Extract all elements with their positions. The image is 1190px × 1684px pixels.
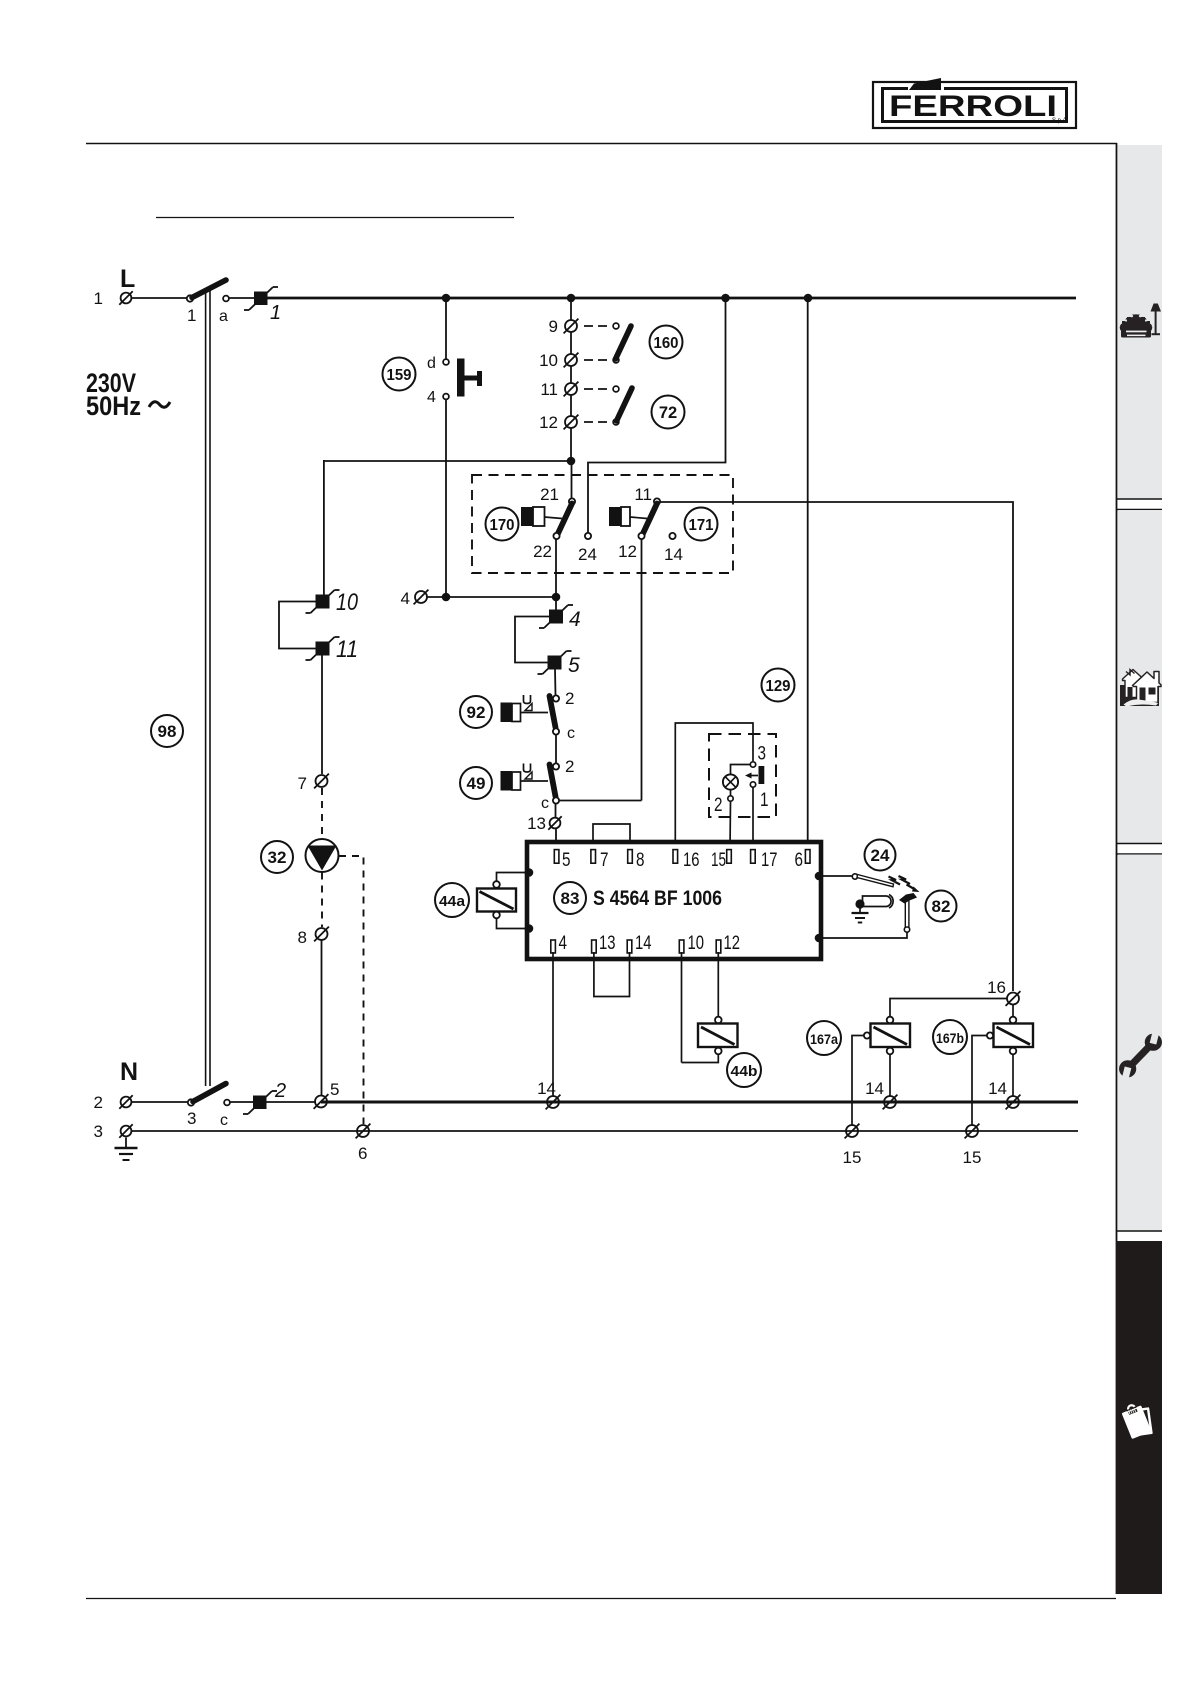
board pin 16: [673, 849, 700, 871]
transformer 44a: [477, 881, 516, 918]
board pin 10: [679, 932, 704, 954]
bottom rule: [86, 1598, 1116, 1600]
icon clipboard: [1120, 1402, 1153, 1439]
svg-text:167a: 167a: [810, 1031, 838, 1047]
svg-text:160: 160: [654, 335, 679, 352]
wire 9-10: [570, 332, 572, 354]
wire 5 down to 92: [554, 670, 557, 696]
thermostat 4: [539, 605, 581, 631]
wire 167a left to ground: [852, 1036, 864, 1126]
switch coupling line 98: [206, 289, 210, 1086]
node 14 (171): [664, 533, 683, 564]
fuse 2: [243, 1080, 286, 1114]
svg-text:12: 12: [724, 932, 741, 954]
svg-text:15: 15: [711, 849, 726, 871]
terminal 7: [298, 774, 329, 793]
wire node 4 row: [427, 596, 556, 598]
wire pin 12 down: [717, 952, 719, 1017]
svg-text:129: 129: [766, 678, 791, 695]
board 83: [527, 842, 821, 959]
terminal 2 (N): [94, 1093, 133, 1112]
svg-text:21: 21: [540, 485, 559, 504]
terminal 9: [549, 317, 579, 336]
ref circle 44b: [727, 1053, 761, 1087]
svg-text:4: 4: [427, 389, 436, 406]
wire bus to board pin 6: [807, 298, 809, 850]
svg-text:9: 9: [549, 317, 558, 336]
wire board to 44a top: [497, 873, 530, 882]
svg-text:11: 11: [540, 380, 558, 399]
svg-text:4: 4: [559, 932, 568, 954]
terminal 4: [401, 589, 429, 608]
contact 170 21-22: [533, 485, 575, 561]
svg-text:S.p.A: S.p.A: [1052, 118, 1067, 124]
thermostat 10: [306, 589, 359, 616]
terminal 6: [356, 1124, 371, 1163]
svg-text:170: 170: [490, 517, 515, 534]
terminal 14 (pin4): [537, 1079, 560, 1109]
board pin 15: [711, 849, 731, 871]
svg-text:8: 8: [636, 849, 645, 871]
board pin 17: [751, 849, 778, 871]
svg-text:13: 13: [527, 814, 546, 833]
junction L-159: [442, 294, 451, 303]
detection electrode 82: [855, 893, 917, 932]
wire 49c down to 13: [555, 804, 557, 818]
contact 49 2-c: [541, 757, 574, 812]
coil 170: [521, 507, 562, 526]
lamp 129: [723, 774, 738, 789]
svg-text:72: 72: [659, 404, 677, 422]
svg-text:8: 8: [298, 928, 307, 947]
wire 167b left to ground: [972, 1036, 987, 1126]
jumper pins 7-8: [593, 824, 630, 850]
wire 16 down to 167b: [1012, 1005, 1014, 1017]
terminal 1 (L): [94, 289, 133, 308]
svg-text:2: 2: [565, 689, 574, 708]
wire 11 down to terminal 7: [321, 656, 323, 775]
svg-text:92: 92: [467, 703, 486, 722]
svg-text:2: 2: [714, 795, 723, 816]
svg-text:11: 11: [336, 636, 358, 663]
ref circle 160: [650, 326, 683, 359]
contact 92 2-c: [550, 689, 576, 742]
wire 16 row to 167a: [890, 999, 1007, 1017]
switch blade 72: [617, 388, 633, 421]
wire lamp top to node 3: [731, 765, 751, 775]
junction L-912: [567, 294, 576, 303]
svg-text:3: 3: [94, 1122, 103, 1141]
fuse 1: [244, 287, 281, 324]
icon sofa with lamp: [1120, 304, 1161, 338]
wire L bus: [267, 297, 1076, 300]
junction board right bottom: [815, 934, 824, 943]
svg-text:a: a: [219, 308, 228, 325]
svg-text:7: 7: [600, 849, 609, 871]
bracket 4-5: [515, 617, 549, 663]
jumper pins 13-14: [594, 952, 630, 997]
ref circle 49: [460, 767, 492, 799]
svg-text:4: 4: [569, 608, 581, 631]
junction 22-4: [552, 593, 561, 602]
relay 167a: [864, 1017, 910, 1055]
node c: [220, 1100, 230, 1129]
ref circle 24: [865, 840, 896, 871]
coil 171: [609, 507, 647, 526]
button 159 contacts: [427, 355, 449, 406]
wire 11-12: [570, 395, 572, 416]
coil 92: [501, 695, 549, 722]
svg-text:5: 5: [568, 654, 580, 677]
wire 167a bottom to N: [889, 1055, 891, 1097]
icon wrench: [1112, 1027, 1168, 1084]
terminal 16: [987, 978, 1020, 1006]
ground symbol: [115, 1138, 138, 1161]
svg-text:14: 14: [865, 1079, 884, 1098]
svg-text:S 4564 BF 1006: S 4564 BF 1006: [593, 887, 722, 910]
N bus: [321, 1101, 1078, 1104]
board pin 12: [716, 932, 740, 954]
wire 92c to 49: [555, 735, 557, 763]
wire a to fuse 1: [229, 297, 254, 299]
wire 24 branch: [588, 298, 726, 533]
svg-text:98: 98: [158, 722, 177, 741]
wire 13 to board pin 5: [555, 829, 557, 850]
svg-text:10: 10: [539, 351, 558, 370]
spark flash: [889, 876, 916, 890]
wire 12 down: [641, 539, 643, 801]
dashed link 12: [584, 419, 619, 425]
bracket 10-11: [279, 602, 316, 649]
wire 4node down to thermostat 4: [555, 597, 557, 610]
svg-text:1: 1: [187, 306, 196, 325]
wire 167b bottom to N: [1012, 1055, 1014, 1097]
pump 32: [306, 839, 339, 872]
spark electrode 24: [823, 874, 894, 887]
wire row down to thermostat 10: [323, 460, 325, 595]
svg-text:10: 10: [688, 932, 705, 954]
ref circle 170: [486, 508, 519, 541]
svg-text:15: 15: [843, 1148, 862, 1167]
svg-text:6: 6: [358, 1144, 367, 1163]
svg-text:12: 12: [539, 413, 558, 432]
thermostat 11: [306, 636, 359, 663]
svg-text:FERROLI: FERROLI: [889, 90, 1057, 123]
relay 44b: [698, 1017, 738, 1055]
svg-text:3: 3: [187, 1109, 196, 1128]
svg-text:24: 24: [578, 545, 597, 564]
wire lamp3 to pin16: [675, 723, 753, 850]
wire fuse 2 to terminal 5: [266, 1101, 316, 1103]
ground 82: [852, 904, 869, 923]
svg-text:13: 13: [599, 932, 616, 954]
svg-text:N: N: [120, 1058, 138, 1086]
ref circle 92: [460, 696, 492, 728]
dashed box 129: [709, 734, 776, 817]
terminal 13: [527, 814, 562, 833]
svg-text:c: c: [541, 795, 549, 812]
wire bus to 159 d: [445, 298, 447, 359]
svg-text:6: 6: [795, 849, 804, 871]
wire 8 down to 5: [321, 941, 323, 1096]
switch 98 pole L: [187, 280, 226, 325]
wire pin 4 down to N: [552, 952, 554, 1096]
svg-text:10: 10: [336, 589, 359, 616]
svg-text:c: c: [567, 725, 575, 742]
svg-text:17: 17: [761, 849, 778, 871]
svg-text:2: 2: [94, 1093, 103, 1112]
svg-text:14: 14: [988, 1079, 1007, 1098]
wire node row y461: [323, 460, 571, 462]
thermostat 5: [538, 651, 581, 677]
wire board to electrode 82: [823, 933, 907, 939]
ref circle 98: [151, 715, 183, 747]
board pin 7: [591, 849, 609, 871]
wire 44b bottom to pin 10: [682, 1055, 719, 1063]
node a: [219, 296, 229, 325]
ref circle 32: [261, 841, 293, 873]
svg-text:4: 4: [401, 589, 410, 608]
ref circle 129: [762, 669, 795, 702]
svg-text:44a: 44a: [439, 893, 466, 910]
svg-text:159: 159: [387, 367, 412, 384]
terminal 5: [314, 1080, 340, 1109]
terminal 15 (167b): [963, 1124, 982, 1167]
dashed link 9: [584, 323, 619, 329]
svg-text:c: c: [220, 1112, 228, 1129]
terminal 10: [539, 351, 578, 370]
svg-text:1: 1: [270, 302, 281, 324]
title underline: [156, 217, 514, 219]
node 2 (129): [714, 790, 733, 816]
svg-text:1: 1: [94, 289, 103, 308]
svg-text:14: 14: [635, 932, 652, 954]
logo FERROLI: [873, 78, 1076, 128]
ref circle 83: [554, 882, 586, 914]
svg-text:167b: 167b: [936, 1030, 964, 1046]
wire 22 down: [555, 539, 557, 597]
svg-text:50Hz: 50Hz: [86, 391, 141, 421]
relay 167b: [987, 1017, 1033, 1055]
board pin 14: [627, 932, 651, 954]
wire L to switch: [132, 297, 187, 299]
ref circle 171: [685, 508, 718, 541]
switch 98 pole N: [187, 1084, 226, 1129]
sidebar: [1116, 143, 1162, 1594]
board pin 4: [551, 932, 567, 954]
wire node1 to pin 17: [752, 788, 754, 851]
svg-text:22: 22: [533, 542, 552, 561]
board pin 8: [628, 849, 645, 871]
dashed link 11: [584, 386, 619, 392]
svg-text:3: 3: [758, 744, 767, 765]
wire node2 to pin 15: [729, 801, 732, 850]
svg-text:16: 16: [987, 978, 1006, 997]
wire 44a bottom to board: [497, 919, 530, 929]
svg-text:11: 11: [634, 485, 652, 504]
terminal 12: [539, 413, 578, 432]
junction board left bottom: [525, 924, 534, 933]
ground bus: [132, 1130, 1078, 1132]
svg-text:12: 12: [618, 542, 637, 561]
wire bus down to terminal 9: [570, 298, 572, 320]
node 24: [578, 533, 597, 564]
junction board left top: [525, 868, 534, 877]
dashed link 10: [584, 357, 619, 363]
junction L-24line: [721, 294, 730, 303]
coil 49: [501, 764, 549, 791]
svg-text:5: 5: [330, 1080, 339, 1099]
junction 159-4: [442, 593, 451, 602]
ref circle 82: [926, 891, 957, 922]
wire c to fuse 2: [230, 1101, 253, 1103]
svg-text:1: 1: [760, 790, 769, 811]
svg-text:32: 32: [268, 848, 287, 867]
svg-text:16: 16: [683, 849, 700, 871]
svg-text:L: L: [120, 265, 135, 293]
label 230V 50Hz: [86, 368, 170, 421]
board pin 6: [795, 849, 811, 871]
node 3 (129): [750, 744, 766, 768]
svg-text:7: 7: [298, 774, 307, 793]
wire pin 10 down: [681, 952, 683, 1063]
junction 912-row: [567, 457, 576, 466]
dashed wire pump to terminal 8: [321, 873, 323, 928]
terminal 8: [298, 927, 329, 947]
svg-text:14: 14: [664, 545, 683, 564]
ref circle 167a: [807, 1021, 841, 1055]
board pin 13: [592, 932, 616, 954]
terminal 15 (167a): [843, 1124, 862, 1167]
terminal 11: [540, 380, 578, 399]
dashed box 170/171: [472, 475, 733, 573]
switch blade 160: [616, 326, 632, 359]
terminal 14 (167b): [988, 1079, 1020, 1109]
terminal 3 (ground): [94, 1122, 133, 1141]
svg-text:171: 171: [689, 517, 714, 534]
board pin 5: [554, 849, 570, 871]
svg-text:82: 82: [932, 897, 951, 916]
junction L-pin6: [804, 294, 813, 303]
junction board right top: [815, 872, 824, 881]
ref circle 167b: [933, 1020, 967, 1054]
svg-text:44b: 44b: [731, 1063, 758, 1080]
svg-text:d: d: [427, 355, 436, 372]
wire 49c right to 171-12: [559, 800, 642, 802]
wire 11 to 167b: [660, 502, 1013, 991]
svg-text:2: 2: [274, 1080, 286, 1102]
wire 12 down to node row: [570, 428, 572, 461]
svg-text:2: 2: [565, 757, 574, 776]
svg-text:49: 49: [467, 774, 486, 793]
ref circle 44a: [435, 883, 469, 917]
terminal 14 (167a): [865, 1079, 897, 1109]
svg-text:5: 5: [562, 849, 571, 871]
svg-text:83: 83: [561, 889, 580, 908]
ref circle 72: [652, 396, 685, 429]
node 1 (129): [750, 782, 768, 811]
icon houses: [1120, 670, 1161, 707]
wire 21 up: [571, 461, 573, 499]
svg-text:24: 24: [871, 846, 890, 865]
wire N to switch: [132, 1101, 188, 1103]
wire 10-11: [570, 366, 572, 383]
wire 159-4 down to node 4: [445, 400, 447, 598]
top rule: [86, 143, 1117, 145]
dashed wire 7 to pump: [321, 788, 323, 838]
contact 171 11-12: [618, 485, 660, 561]
button 159 actuator: [457, 359, 482, 397]
svg-text:15: 15: [963, 1148, 982, 1167]
dashed wire pump right down to 6: [339, 856, 364, 1124]
switch bar 129: [745, 766, 764, 784]
ref circle 159: [383, 358, 416, 391]
